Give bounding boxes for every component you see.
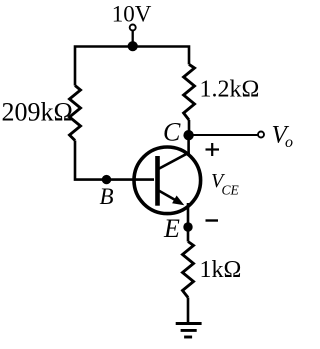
wire R3 to ground <box>187 298 190 324</box>
resistor R3 1k zigzag <box>183 242 194 298</box>
svg-text:1kΩ: 1kΩ <box>200 257 242 283</box>
node E junction dot <box>183 222 192 231</box>
emitter lead diagonal <box>159 191 177 201</box>
wire collector vertical <box>187 135 190 156</box>
node C junction dot <box>183 130 193 140</box>
supply terminal circle <box>130 25 136 31</box>
svg-text:1.2kΩ: 1.2kΩ <box>200 77 260 103</box>
resistor R2 1.2k zigzag <box>184 64 195 120</box>
resistor R1 209k zigzag <box>70 86 81 141</box>
wire R1 bottom to base corner <box>75 141 154 180</box>
svg-text:10V: 10V <box>112 2 152 27</box>
svg-text:209kΩ: 209kΩ <box>2 98 73 127</box>
collector lead diagonal <box>159 152 190 168</box>
transistor Q1 circle <box>134 147 201 214</box>
svg-text:E: E <box>163 214 180 243</box>
transistor base bar <box>155 156 160 206</box>
node B junction dot <box>102 175 111 184</box>
svg-text:CE: CE <box>222 183 240 198</box>
svg-text:B: B <box>100 184 114 209</box>
label minus sign <box>206 219 219 221</box>
wire node C to output terminal <box>189 134 258 136</box>
wire emitter vertical to node E <box>187 203 190 242</box>
label plus sign <box>206 143 220 156</box>
svg-text:o: o <box>285 134 293 151</box>
emitter arrowhead <box>172 196 184 206</box>
wire top rail <box>75 47 189 86</box>
wire R2 bottom to node C <box>188 120 191 135</box>
wire terminal to top rail <box>132 31 134 47</box>
svg-text:C: C <box>163 118 181 147</box>
output terminal Vo circle <box>258 132 264 138</box>
ground symbol <box>176 324 202 338</box>
junction supply node dot <box>128 41 138 51</box>
